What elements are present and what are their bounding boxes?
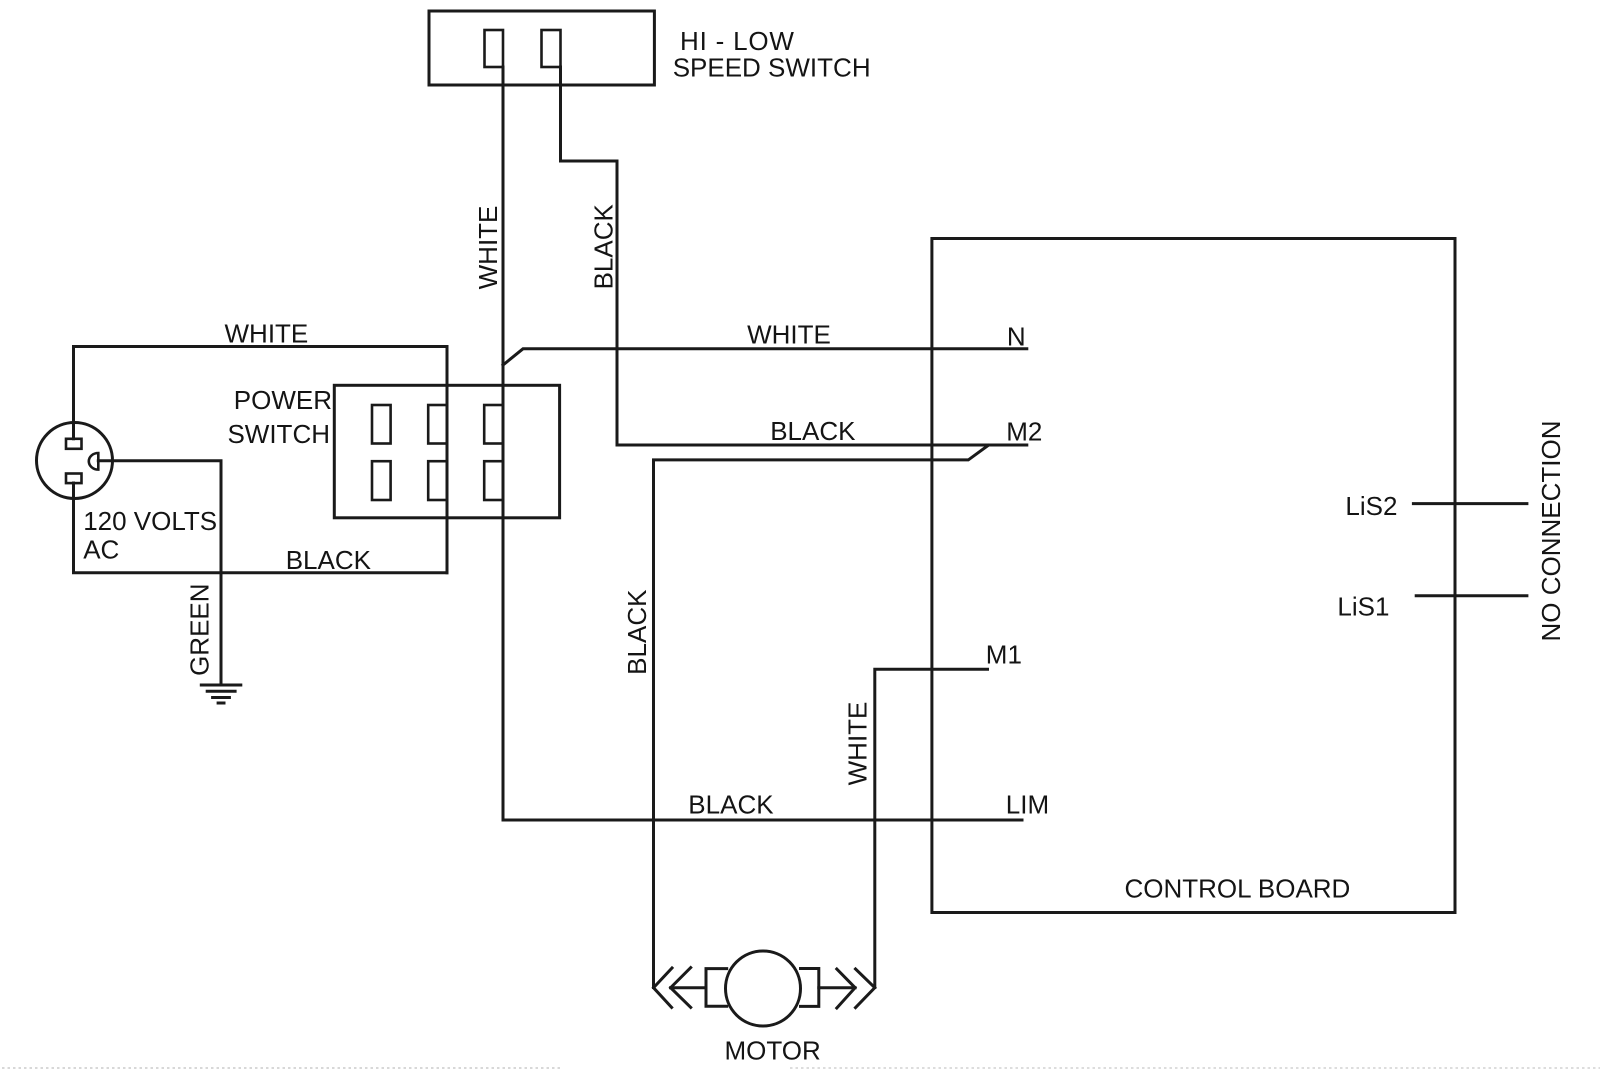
svg-text:BLACK: BLACK	[688, 790, 774, 820]
svg-text:CONTROL BOARD: CONTROL BOARD	[1125, 874, 1351, 904]
svg-text:LiS2: LiS2	[1345, 491, 1397, 521]
svg-text:N: N	[1007, 321, 1026, 351]
svg-text:BLACK: BLACK	[286, 545, 372, 575]
svg-text:WHITE: WHITE	[225, 318, 309, 348]
svg-text:SPEED SWITCH: SPEED SWITCH	[673, 53, 871, 83]
svg-text:MOTOR: MOTOR	[725, 1036, 821, 1066]
svg-text:AC: AC	[83, 534, 119, 564]
svg-text:WHITE: WHITE	[843, 702, 873, 786]
svg-text:M1: M1	[986, 640, 1022, 670]
svg-text:BLACK: BLACK	[589, 204, 619, 290]
svg-text:LIM: LIM	[1006, 790, 1049, 820]
svg-text:SWITCH: SWITCH	[227, 419, 330, 449]
svg-text:POWER: POWER	[234, 385, 332, 415]
svg-text:BLACK: BLACK	[622, 589, 652, 675]
svg-text:LiS1: LiS1	[1337, 591, 1389, 621]
svg-text:WHITE: WHITE	[747, 320, 831, 350]
svg-text:WHITE: WHITE	[473, 206, 503, 290]
svg-text:120 VOLTS: 120 VOLTS	[83, 506, 217, 536]
svg-text:M2: M2	[1006, 416, 1042, 446]
svg-text:NO CONNECTION: NO CONNECTION	[1536, 421, 1566, 642]
svg-text:HI - LOW: HI - LOW	[680, 26, 795, 56]
svg-text:BLACK: BLACK	[770, 416, 856, 446]
svg-text:GREEN: GREEN	[185, 583, 215, 675]
